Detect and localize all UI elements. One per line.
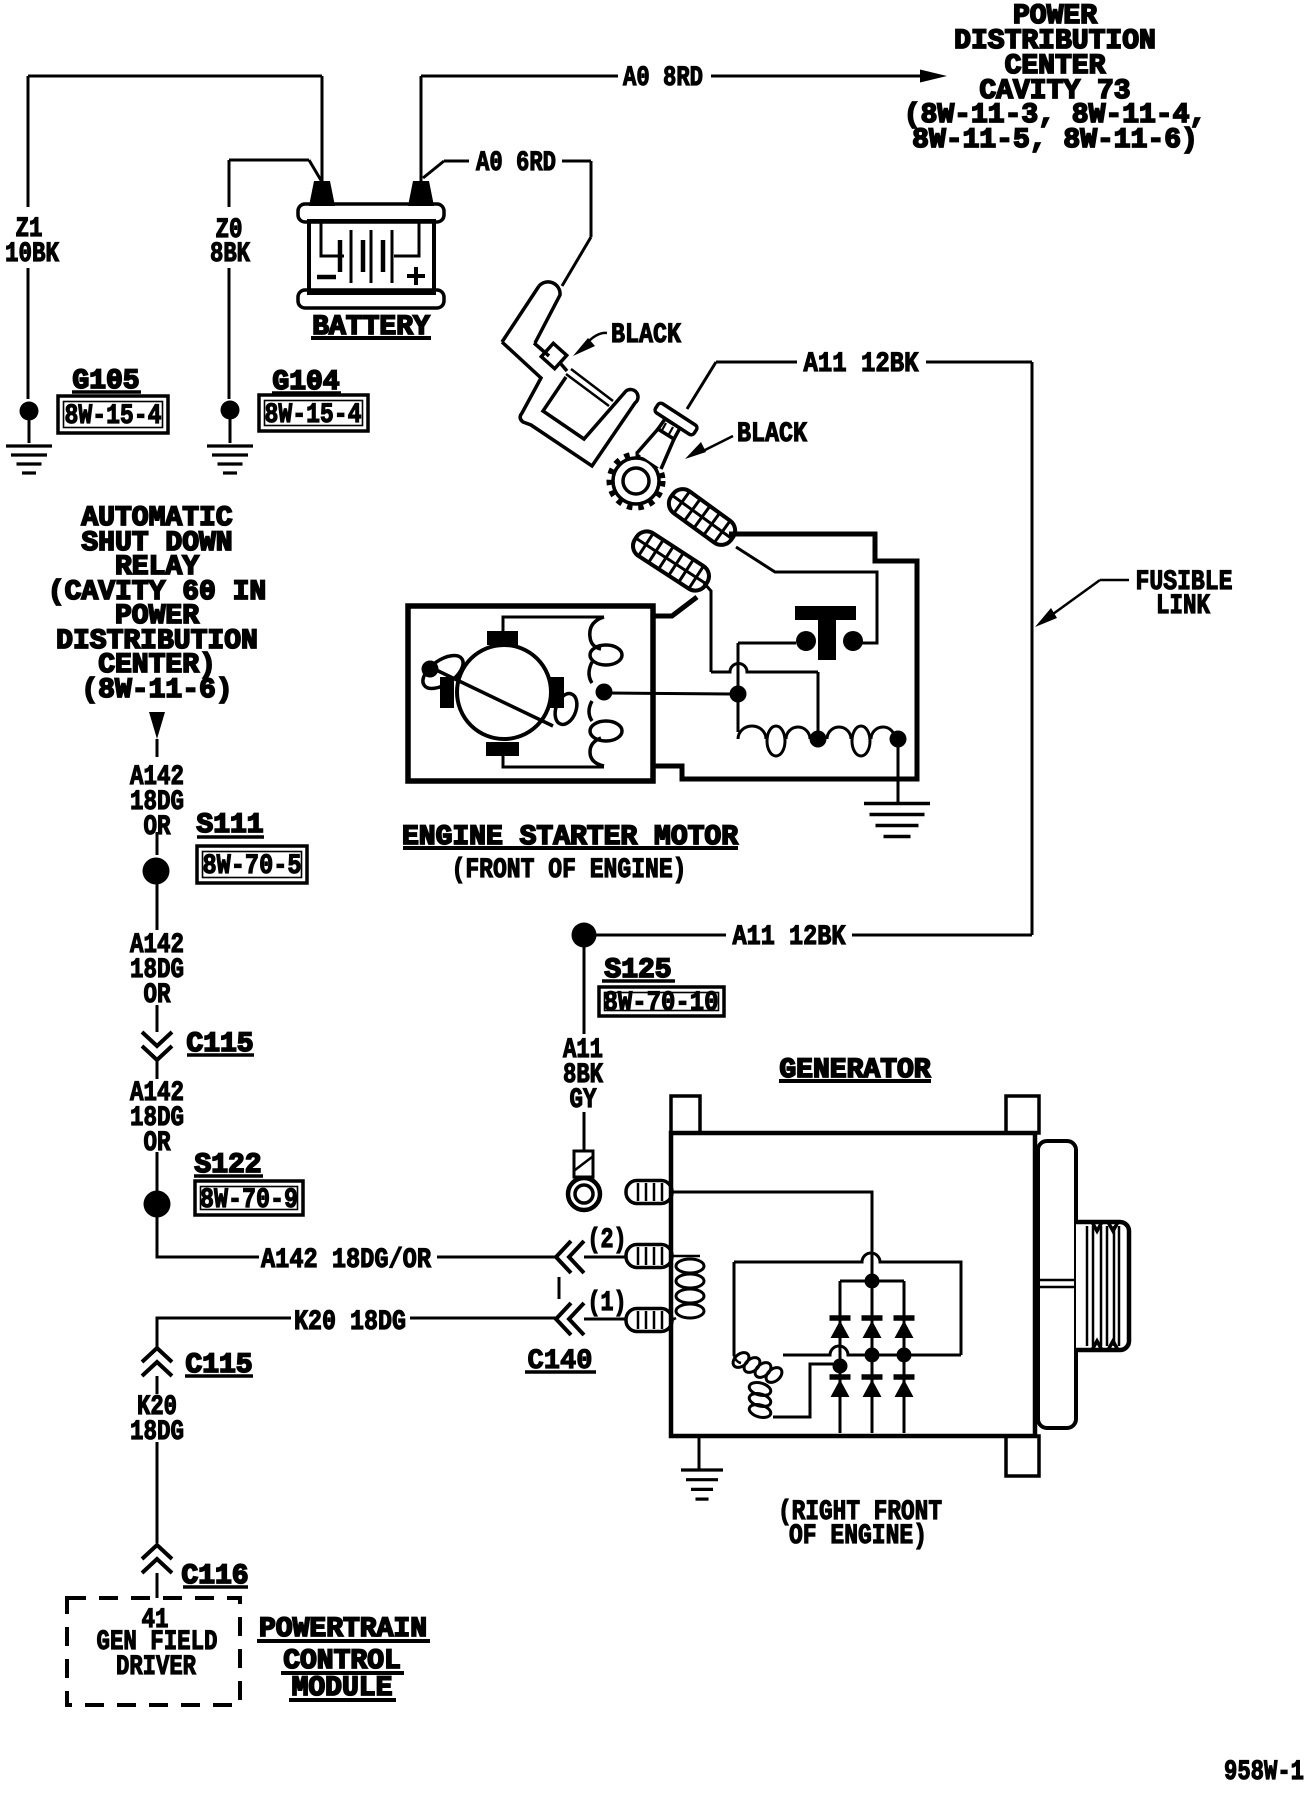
- svg-text:958W-1: 958W-1: [1224, 1757, 1304, 1788]
- svg-text:(1): (1): [588, 1288, 627, 1319]
- svg-text:LINK: LINK: [1156, 591, 1210, 622]
- svg-text:8W-70-5: 8W-70-5: [203, 851, 302, 882]
- svg-text:BLACK: BLACK: [611, 320, 681, 351]
- svg-text:8W-70-9: 8W-70-9: [200, 1185, 298, 1216]
- svg-text:BLACK: BLACK: [737, 419, 807, 450]
- svg-text:8W-15-4: 8W-15-4: [65, 401, 162, 432]
- svg-text:8BK: 8BK: [210, 239, 250, 270]
- svg-text:GY: GY: [570, 1085, 597, 1116]
- svg-text:A11 12BK: A11 12BK: [804, 349, 919, 380]
- svg-text:10BK: 10BK: [5, 239, 59, 270]
- svg-text:A0 6RD: A0 6RD: [476, 148, 556, 179]
- svg-text:8W-70-10: 8W-70-10: [604, 988, 719, 1019]
- svg-text:(FRONT OF ENGINE): (FRONT OF ENGINE): [452, 855, 687, 886]
- svg-text:OF ENGINE): OF ENGINE): [789, 1521, 927, 1552]
- svg-text:A142 18DG/OR: A142 18DG/OR: [261, 1245, 431, 1276]
- svg-text:8W-15-4: 8W-15-4: [265, 400, 362, 431]
- svg-text:(8W-11-6): (8W-11-6): [81, 675, 232, 706]
- svg-text:A11 12BK: A11 12BK: [733, 922, 846, 953]
- svg-text:A0 8RD: A0 8RD: [623, 63, 703, 94]
- svg-text:8W-11-5, 8W-11-6): 8W-11-5, 8W-11-6): [912, 125, 1198, 156]
- svg-text:K20 18DG: K20 18DG: [294, 1307, 406, 1338]
- svg-text:(2): (2): [588, 1225, 627, 1256]
- svg-text:DRIVER: DRIVER: [116, 1652, 196, 1683]
